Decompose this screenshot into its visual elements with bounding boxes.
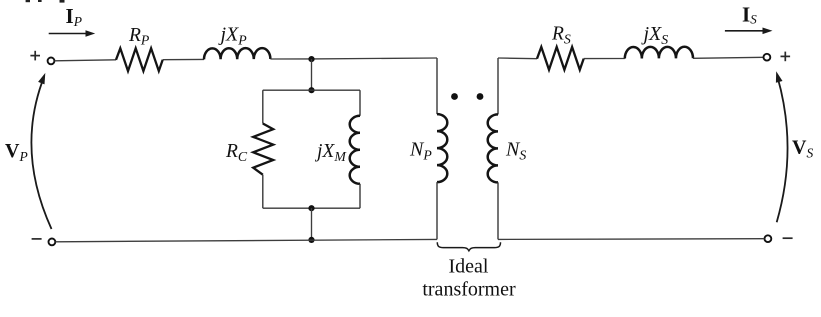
wire top right rail left part [498,57,537,60]
svg-text:RS: RS [551,24,571,47]
terminal circle bottom left [49,239,56,246]
wire N_S upper lead [497,58,499,114]
resistor R_S [537,47,584,70]
current arrow I_S [725,28,773,35]
svg-text:VS: VS [792,137,813,161]
svg-text:RP: RP [128,25,150,48]
inductor jX_M [350,116,360,184]
voltage arrow V_P [31,73,51,229]
current arrow I_P [49,30,95,36]
transformer secondary coil N_S [488,114,498,182]
svg-text:IS: IS [742,2,757,26]
terminal circle top right [764,54,771,61]
plus sign top left [30,51,40,61]
wire N_S lower lead [497,182,499,239]
wire jX_M upper lead [359,90,361,116]
wire [270,58,311,60]
voltage arrow V_S [776,71,788,222]
junction dot shunt bottom [308,205,314,211]
terminal circle top left [48,58,55,65]
svg-text:jXM: jXM [314,141,347,164]
wire [312,57,438,60]
terminal circle bottom right [765,235,772,242]
plus sign top right [781,52,791,62]
minus sign bottom right [783,237,793,239]
resistor R_P [116,48,163,71]
inductor jX_P [204,48,270,59]
svg-text:jXS: jXS [641,23,669,47]
junction dot top rail [308,56,314,62]
svg-text:transformer: transformer [422,279,516,301]
wire [163,58,204,60]
wire N_P upper lead [436,58,438,114]
svg-text:Ideal: Ideal [449,256,489,278]
wire top left [55,60,116,61]
svg-text:RC: RC [225,141,248,164]
svg-text:NS: NS [505,139,526,163]
wire [584,58,625,60]
transformer primary coil N_P [437,114,447,182]
svg-text:VP: VP [5,140,28,164]
wire shunt box bottom [263,207,360,209]
inductor jX_S [625,47,693,59]
wire shunt vertical lower [311,208,313,240]
wire bottom right rail [498,238,765,241]
junction dot shunt top [308,87,314,93]
svg-text:IP: IP [66,4,82,29]
wire R_C upper lead [262,90,264,123]
wire N_P lower lead [436,182,438,239]
svg-text:jXP: jXP [218,24,248,48]
junction dot bottom rail [308,237,314,243]
wire shunt vertical upper [311,59,313,90]
polarity dot left [451,93,458,100]
wire shunt box top [263,89,360,91]
wire jX_M lower lead [359,184,361,208]
cropped text remnant top edge [26,0,65,3]
minus sign bottom left [32,238,42,240]
resistor R_C [253,124,273,175]
brace ideal transformer [437,242,500,250]
wire [693,57,763,58]
wire R_C lower lead [262,175,264,209]
polarity dot right [477,93,484,100]
svg-text:NP: NP [409,139,432,163]
wire bottom left rail [56,239,438,241]
